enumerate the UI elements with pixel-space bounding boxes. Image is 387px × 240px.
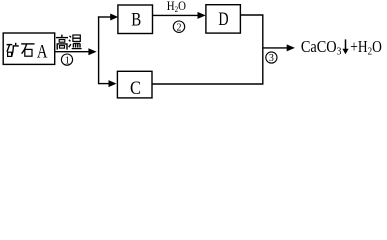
label circled 2 [173, 21, 184, 32]
box 矿石A [3, 33, 55, 64]
arrow B to D [153, 14, 199, 16]
glyph 高 [56, 35, 68, 50]
arrow into C [98, 83, 110, 85]
svg-text:A: A [37, 41, 48, 62]
junction vertical line [98, 16, 100, 84]
glyph 石 [21, 44, 34, 56]
svg-text:+H2O: +H2O [350, 37, 382, 58]
svg-text:B: B [131, 10, 141, 31]
glyph 温 [69, 35, 82, 49]
box D [206, 5, 241, 33]
arrow 1 (high temp) [55, 51, 90, 53]
wire C to junction [152, 47, 263, 84]
svg-text:2: 2 [177, 22, 182, 33]
svg-text:C: C [130, 78, 141, 99]
svg-text:3: 3 [269, 53, 274, 64]
glyph 矿 [7, 43, 19, 57]
box C [117, 71, 152, 98]
svg-text:1: 1 [65, 55, 70, 66]
output arrow [263, 47, 288, 49]
wire D to junction [240, 15, 262, 47]
svg-text:D: D [218, 9, 228, 30]
box B [118, 5, 153, 34]
label circled 1 [61, 54, 72, 65]
svg-text:CaCO3: CaCO3 [301, 37, 342, 58]
svg-text:H2O: H2O [167, 0, 186, 14]
arrow into B [98, 16, 112, 18]
down arrow [345, 39, 347, 50]
label circled 3 [266, 52, 277, 63]
